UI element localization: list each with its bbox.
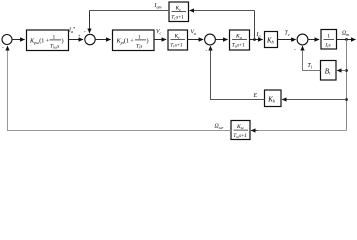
svg-text:Jts: Jts xyxy=(325,42,331,48)
block Bt friction xyxy=(321,61,337,81)
node Ia junction dot xyxy=(253,38,256,41)
svg-text:Ka: Ka xyxy=(235,34,242,40)
svg-text:Ωm: Ωm xyxy=(342,31,349,37)
svg-text:Trs+1: Trs+1 xyxy=(170,43,183,49)
wire G6 to output xyxy=(337,39,356,41)
summing junction S2 xyxy=(85,34,95,44)
svg-text:1: 1 xyxy=(327,33,330,39)
wire current feedback tap up xyxy=(254,11,256,40)
junction dot at Bt branch xyxy=(345,69,348,72)
summing junction S4 xyxy=(297,34,308,45)
wire S4 to block G6 xyxy=(308,39,319,41)
wire speed filter output to S1 xyxy=(8,46,232,130)
svg-text:Tiωs: Tiωs xyxy=(50,43,59,49)
wire S1 to block G1 xyxy=(12,39,25,41)
arrow into S1 bottom xyxy=(7,46,9,49)
wire Gc filter output left xyxy=(90,10,170,12)
svg-text:Va: Va xyxy=(191,30,197,36)
svg-text:Tωs+1: Tωs+1 xyxy=(233,133,247,139)
svg-text:+: + xyxy=(292,40,295,45)
svg-text:Tcs+1: Tcs+1 xyxy=(171,15,184,21)
wire bottom feedback to speed filter xyxy=(253,130,347,132)
wire Bt output to S4 xyxy=(303,46,321,70)
block Gb back emf Kb xyxy=(265,90,282,107)
junction dot at emf branch xyxy=(345,98,348,101)
wire S3 to block G4 xyxy=(215,39,227,41)
svg-text:Vc: Vc xyxy=(156,29,162,35)
svg-text:1: 1 xyxy=(138,34,141,40)
svg-text:Te: Te xyxy=(285,31,290,37)
svg-text:): ) xyxy=(62,38,64,45)
svg-text:Iam: Iam xyxy=(154,3,162,9)
svg-text:Tas+1: Tas+1 xyxy=(232,43,245,49)
summing junction S3 xyxy=(205,34,216,45)
svg-text:Kpω(1 +: Kpω(1 + xyxy=(29,38,50,45)
block G6 inertia 1/Jts xyxy=(321,30,337,50)
wire G2 to G3 xyxy=(154,39,166,41)
block G1 speed controller xyxy=(27,30,69,51)
arrow into speed filter xyxy=(251,130,258,132)
svg-text:1: 1 xyxy=(53,34,56,40)
wire G5 to S4 xyxy=(278,39,296,41)
block G5 torque constant Kb xyxy=(265,32,278,48)
wire into Bt block xyxy=(337,70,346,72)
block Gw speed filter xyxy=(231,121,250,140)
svg-text:Kpi(1 +: Kpi(1 + xyxy=(116,38,135,45)
wire down into S2 xyxy=(89,11,91,33)
wire S2 to block G2 xyxy=(95,39,110,41)
wire top feedback to Gc filter xyxy=(190,10,255,12)
svg-text:+: + xyxy=(78,35,81,40)
svg-text:Kr: Kr xyxy=(174,34,181,40)
wire output down leg xyxy=(346,40,348,131)
summing junction S1 xyxy=(2,35,12,45)
block Gc current filter xyxy=(169,2,189,22)
wire G3 to S3 xyxy=(188,39,204,41)
block G4 armature xyxy=(230,30,250,50)
svg-text:Kω: Kω xyxy=(236,124,244,130)
arrow into S4 bottom xyxy=(302,46,304,49)
arrow into S3 bottom xyxy=(210,46,212,49)
block G2 current controller xyxy=(113,30,155,51)
block G3 converter xyxy=(168,30,188,50)
svg-text:E: E xyxy=(253,93,258,99)
wire emf output to S3 xyxy=(211,46,265,99)
svg-text:Ia: Ia xyxy=(256,32,261,38)
svg-text:): ) xyxy=(147,38,149,45)
wire into Kb emf block xyxy=(282,99,346,101)
svg-text:Kc: Kc xyxy=(175,6,182,12)
svg-text:Tis: Tis xyxy=(136,43,142,49)
wire G1 to S2 xyxy=(69,39,84,41)
svg-text:Ωωr: Ωωr xyxy=(215,124,224,130)
wire G4 to K_b torque block xyxy=(250,39,263,41)
output junction dot xyxy=(345,38,348,41)
